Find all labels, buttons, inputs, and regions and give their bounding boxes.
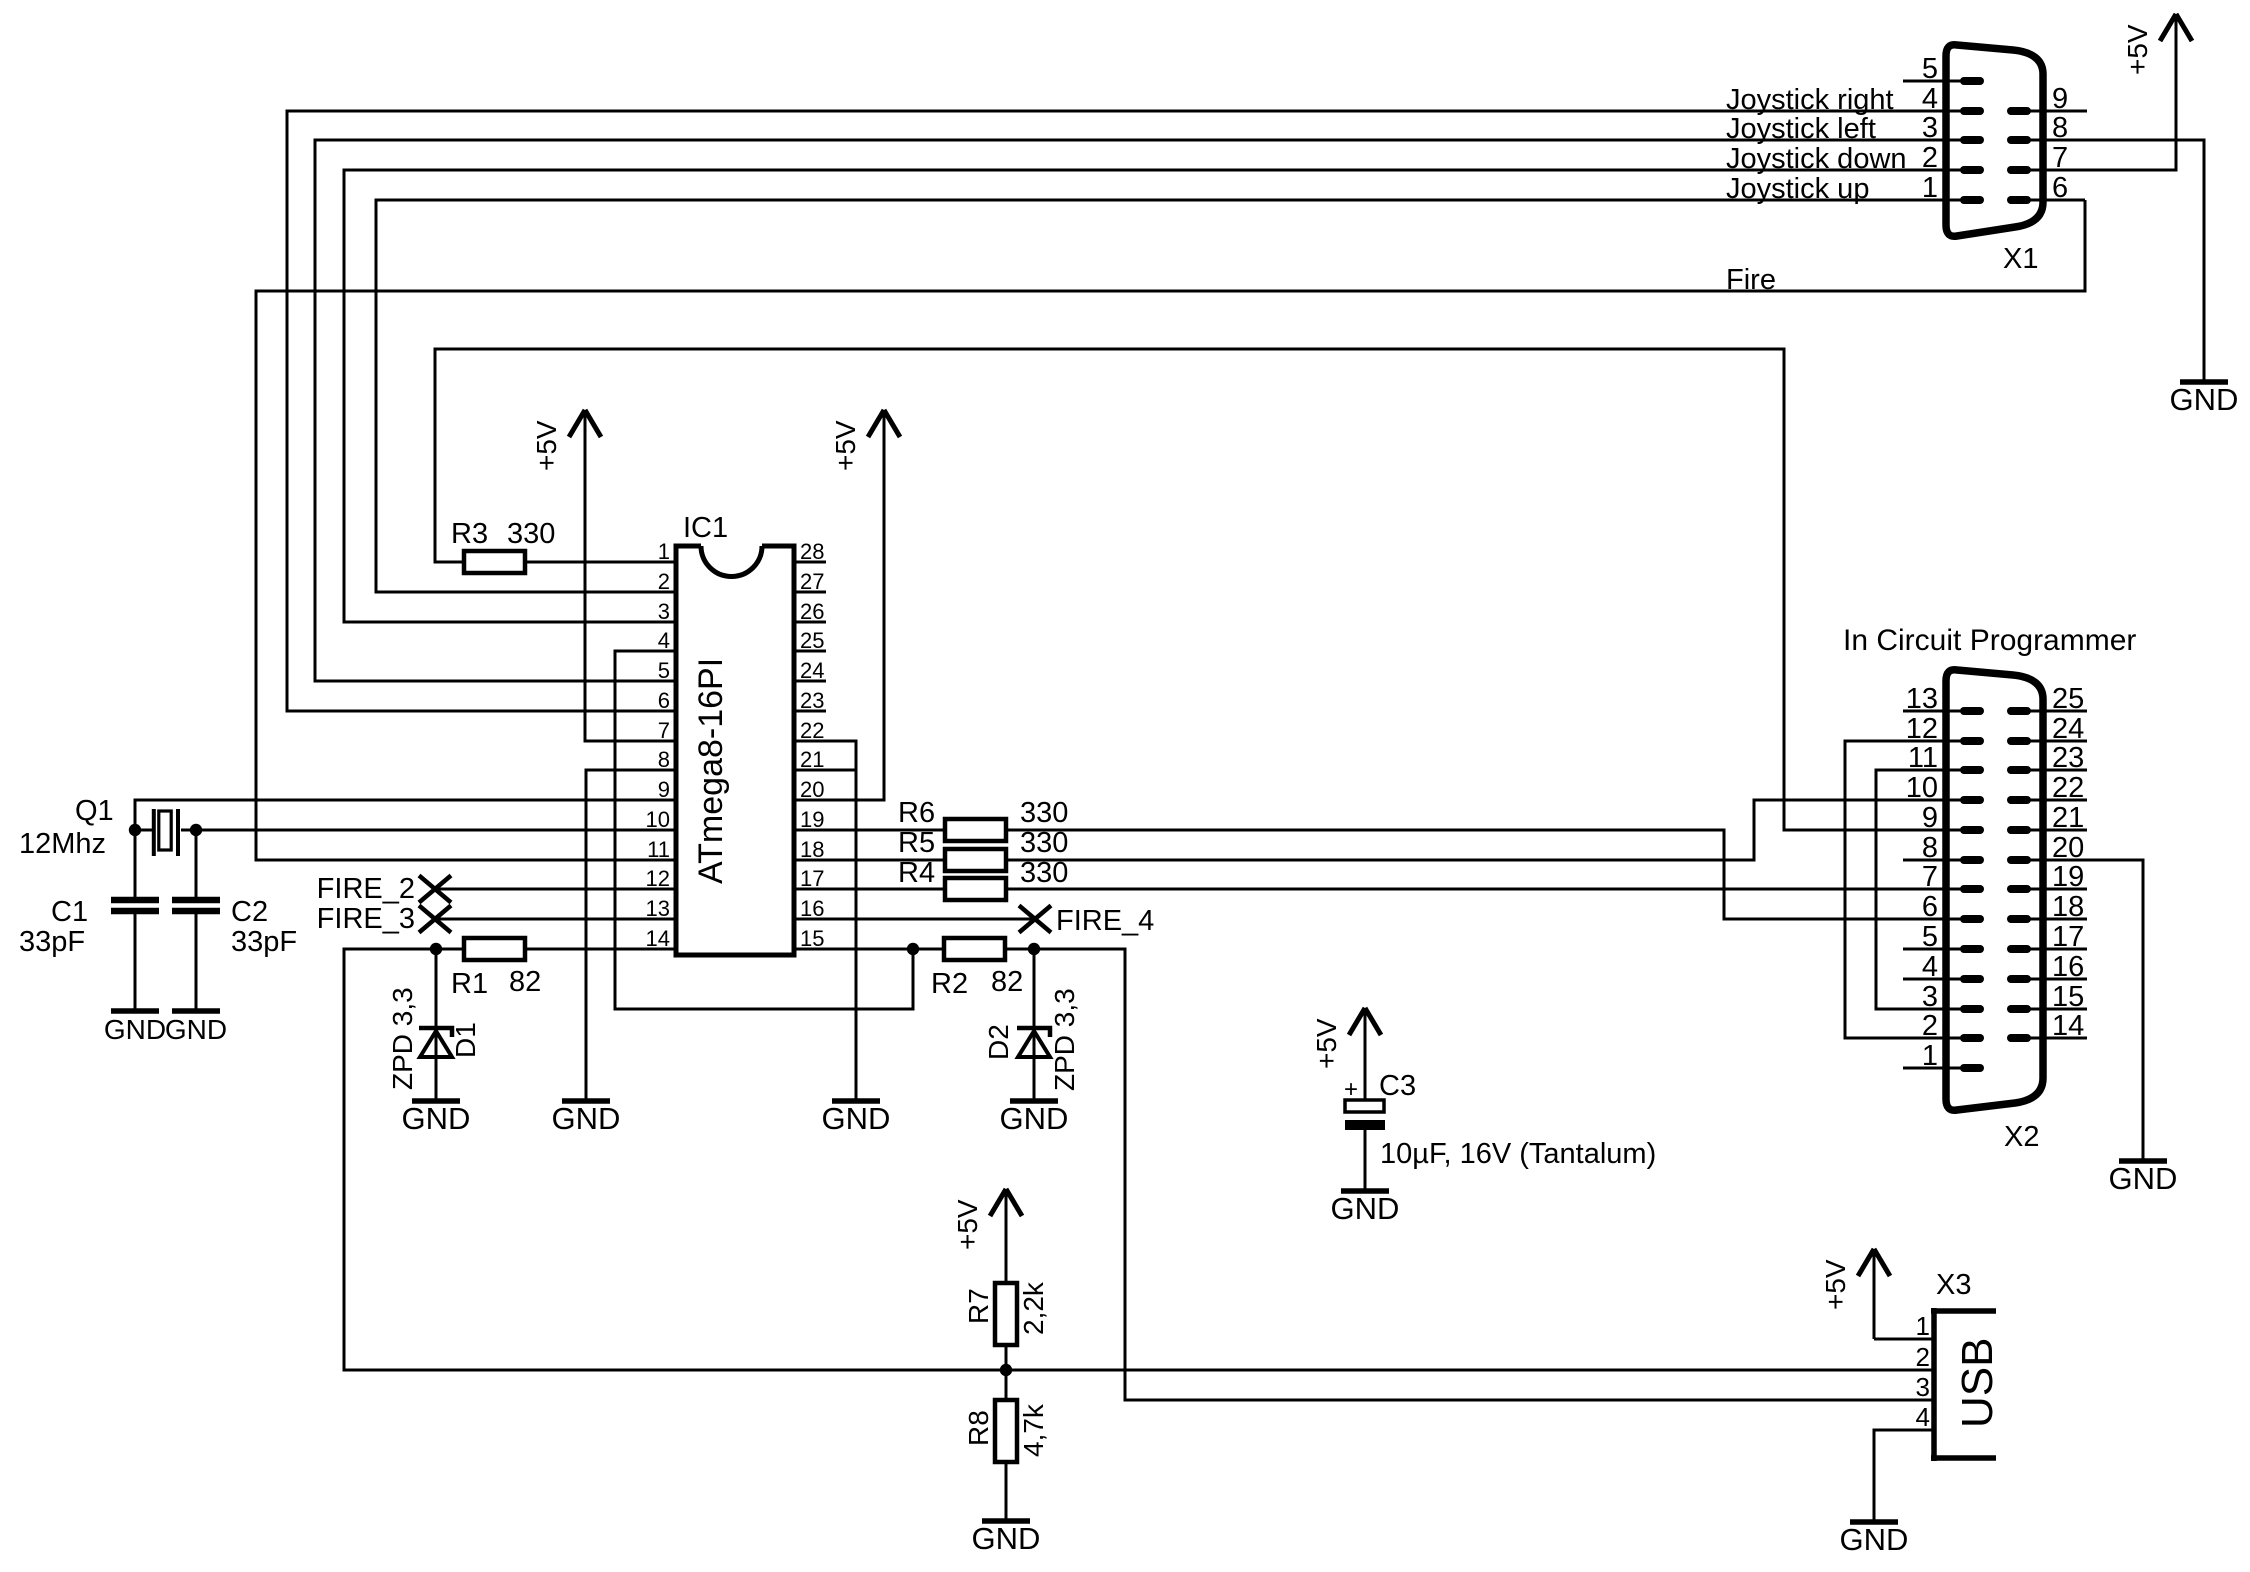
svg-text:GND: GND (2170, 382, 2239, 417)
svg-text:R8: R8 (963, 1410, 994, 1446)
wire X2 pin19 stub (2030, 888, 2087, 891)
zener diode D1 (419, 1028, 452, 1037)
resistor R8 box (995, 1400, 1017, 1462)
svg-text:+5V: +5V (531, 420, 562, 471)
wire X2 pin14 stub (2030, 1037, 2087, 1040)
wire pin20 AVCC +5V (794, 437, 884, 800)
ground at C1 (111, 1008, 159, 1014)
svg-text:FIRE_4: FIRE_4 (1056, 905, 1154, 937)
ground at IC pin8 (562, 1098, 610, 1104)
svg-text:25: 25 (800, 628, 824, 653)
connector X2 pin 3 contact (1964, 1005, 1980, 1013)
resistor R5 box (945, 849, 1006, 871)
connector X2 pin 23 contact (2011, 766, 2027, 774)
wire R8 bottom (1005, 1462, 1008, 1519)
wire pin16 FIRE_4 stub (794, 918, 1035, 921)
connector X2 pin 1 contact (1964, 1064, 1980, 1072)
no-connect X FIRE_2 (419, 876, 451, 903)
connector X1 pin 3 contact (1964, 136, 1980, 144)
wire X3 pin3 end (1930, 1399, 1934, 1402)
svg-text:C2: C2 (231, 896, 268, 928)
svg-text:2: 2 (658, 569, 670, 594)
wire C3 top (1364, 1038, 1367, 1100)
connector X2 pin 7 contact (1964, 885, 1980, 893)
connector X2 pin 12 contact (1964, 737, 1980, 745)
wire X2 pin4 stub (1903, 978, 1962, 981)
ground at IC pin22 (832, 1098, 880, 1104)
connector X1 pin 8 contact (2011, 136, 2027, 144)
svg-text:Joystick down: Joystick down (1726, 143, 1907, 175)
svg-text:9: 9 (1922, 802, 1938, 834)
svg-text:330: 330 (1020, 827, 1068, 859)
svg-text:Fire: Fire (1726, 264, 1776, 296)
svg-text:27: 27 (800, 569, 824, 594)
svg-text:R1: R1 (451, 968, 488, 1000)
wire X2 pin11 to pin3 jumper (1876, 770, 1962, 1009)
wire C1 bottom (134, 914, 137, 1009)
svg-text:22: 22 (800, 718, 824, 743)
wire IC pin28 stub (794, 561, 826, 564)
crystal Q1 (135, 829, 196, 832)
resistor R7 box (995, 1283, 1017, 1345)
wire X2 pin23 stub (2030, 769, 2087, 772)
junction D+ right (1028, 943, 1040, 955)
junction D- at R1 (430, 943, 442, 955)
svg-text:3: 3 (1916, 1372, 1930, 1402)
connector X2 pin 21 contact (2011, 826, 2027, 834)
svg-text:12: 12 (646, 866, 670, 891)
wire Joystick down net (344, 170, 1962, 622)
wire pin8 GND (586, 770, 676, 1099)
svg-text:C1: C1 (51, 896, 88, 928)
wire X2 pin16 stub (2030, 978, 2087, 981)
+5V arrow at X1 (2160, 14, 2192, 41)
svg-text:+5V: +5V (830, 420, 861, 471)
svg-text:6: 6 (658, 688, 670, 713)
svg-text:1: 1 (658, 539, 670, 564)
svg-text:28: 28 (800, 539, 824, 564)
svg-text:USB: USB (1953, 1338, 2002, 1428)
svg-text:R5: R5 (898, 827, 935, 859)
wire D1 vertical (435, 949, 438, 1101)
svg-text:R6: R6 (898, 797, 935, 829)
svg-text:+5V: +5V (2122, 24, 2153, 75)
svg-text:GND: GND (552, 1101, 621, 1136)
ground at X2 pin20 (2119, 1158, 2167, 1164)
svg-text:4: 4 (658, 628, 670, 653)
wire X2 pin5 stub (1903, 948, 1962, 951)
svg-text:1: 1 (1922, 172, 1938, 204)
wire X2 pin13 stub (1903, 710, 1962, 713)
connector X2 pin 18 contact (2011, 915, 2027, 923)
wire IC pin24 stub (794, 680, 826, 683)
wire X3 pin1 +5V (1874, 1338, 1934, 1341)
+5V arrow at X3 (1858, 1249, 1890, 1276)
svg-text:4: 4 (1916, 1402, 1930, 1432)
wire X3 pin4 GND (1874, 1430, 1934, 1520)
svg-text:2: 2 (1922, 142, 1938, 174)
svg-text:X3: X3 (1936, 1269, 1971, 1301)
wire X2 pin12 to pin2 jumper (1845, 741, 1962, 1038)
connector X2 pin 25 contact (2011, 707, 2027, 715)
svg-text:GND: GND (822, 1101, 891, 1136)
svg-text:18: 18 (800, 837, 824, 862)
svg-text:Joystick left: Joystick left (1726, 113, 1876, 145)
connector X2 pin 17 contact (2011, 945, 2027, 953)
wire X2 pin15 stub (2030, 1008, 2087, 1011)
connector X1 pin 4 contact (1964, 107, 1980, 115)
svg-text:X1: X1 (2003, 243, 2038, 275)
wire X2 pin17 stub (2030, 948, 2087, 951)
svg-text:GND: GND (972, 1521, 1041, 1556)
connector X2 pin 16 contact (2011, 975, 2027, 983)
svg-text:330: 330 (1020, 797, 1068, 829)
svg-text:GND: GND (1840, 1522, 1909, 1557)
+5V arrow at C3 (1349, 1008, 1381, 1035)
no-connect X FIRE_4 (1019, 906, 1051, 933)
ground at D2 (1010, 1098, 1058, 1104)
wire pin10 XTAL2 (196, 829, 676, 832)
wire X2 pin24 stub (2030, 740, 2087, 743)
connector X2 pin 14 contact (2011, 1034, 2027, 1042)
wire X2 pin21 stub (2030, 829, 2087, 832)
svg-text:R4: R4 (898, 857, 935, 889)
wire pin7 +5V (585, 437, 676, 741)
connector X2 pin 11 contact (1964, 766, 1980, 774)
svg-text:IC1: IC1 (683, 512, 728, 544)
ground at D1 (412, 1098, 460, 1104)
wire R7 to junction (1005, 1345, 1008, 1370)
svg-text:R2: R2 (931, 968, 968, 1000)
connector X1 pin 6 contact (2011, 196, 2027, 204)
capacitor C2 (172, 900, 220, 911)
svg-text:9: 9 (658, 777, 670, 802)
connector X1 pin 1 contact (1964, 196, 1980, 204)
wire pin13 FIRE_3 stub (435, 918, 676, 921)
svg-text:16: 16 (800, 896, 824, 921)
resistor R6 box (945, 819, 1006, 841)
wire X2 pin1 stub (1903, 1067, 1962, 1070)
wire pin17 R4 net to X2 pin7 (794, 888, 1962, 891)
connector X2 pin 20 contact (2011, 856, 2027, 864)
wire reset net R3 left up over to X2 pin9 (435, 349, 1962, 830)
svg-text:GND: GND (104, 1014, 166, 1045)
wire IC pin27 stub (794, 591, 826, 594)
svg-text:6: 6 (1922, 891, 1938, 923)
wire pin21 AREF (794, 769, 856, 772)
ground at R8 (982, 1518, 1030, 1524)
svg-text:14: 14 (646, 926, 670, 951)
ground at C2 (172, 1008, 220, 1014)
svg-text:In Circuit Programmer: In Circuit Programmer (1843, 624, 2136, 657)
wire Joystick right net (287, 111, 1962, 711)
IC body ATmega8 (676, 546, 794, 955)
wire junction to R8 (1005, 1370, 1008, 1400)
wire D2 vertical (1033, 949, 1036, 1099)
connector X2 pin 24 contact (2011, 737, 2027, 745)
svg-text:ZPD 3,3: ZPD 3,3 (387, 987, 418, 1090)
svg-text:GND: GND (1331, 1191, 1400, 1226)
wire C2 top (195, 830, 198, 897)
wire IC pin26 stub (794, 621, 826, 624)
wire pin12 FIRE_2 stub (435, 888, 676, 891)
svg-text:ATmega8-16PI: ATmega8-16PI (692, 658, 730, 884)
wire pin9 XTAL1 (135, 800, 676, 830)
+5V arrow at IC pin20 (868, 410, 900, 437)
svg-text:2,2k: 2,2k (1018, 1281, 1049, 1335)
svg-text:10: 10 (646, 807, 670, 832)
resistor R3 box (464, 551, 525, 573)
svg-text:2: 2 (1916, 1342, 1930, 1372)
svg-text:R3: R3 (451, 518, 488, 550)
svg-text:7: 7 (658, 718, 670, 743)
wire pin22 GND (794, 741, 856, 1099)
ground at X3 pin4 (1850, 1519, 1898, 1525)
connector X1 pin 9 contact (2011, 107, 2027, 115)
svg-text:Joystick up: Joystick up (1726, 173, 1869, 205)
wire X2 pin20 to GND (2030, 860, 2143, 1159)
connector X2 pin 2 contact (1964, 1034, 1980, 1042)
svg-text:+5V: +5V (952, 1199, 983, 1250)
svg-text:24: 24 (800, 658, 824, 683)
wire IC pin25 stub (794, 650, 826, 653)
connector X2 pin 4 contact (1964, 975, 1980, 983)
wire X2 pin25 stub (2030, 710, 2087, 713)
connector X1 pin 7 contact (2011, 166, 2027, 174)
wire X1 pin7 to +5V (2030, 45, 2176, 170)
wire X1 pin8 to GND (2030, 140, 2204, 380)
svg-text:12Mhz: 12Mhz (19, 828, 106, 860)
wire X2 pin22 stub (2030, 799, 2087, 802)
connector X2 pin 13 contact (1964, 707, 1980, 715)
svg-text:330: 330 (507, 518, 555, 550)
+5V arrow at R7 (990, 1189, 1022, 1216)
connector X2 pin 5 contact (1964, 945, 1980, 953)
svg-text:D2: D2 (983, 1024, 1014, 1060)
junction crystal right (190, 824, 202, 836)
svg-text:Q1: Q1 (75, 795, 114, 827)
svg-text:4,7k: 4,7k (1018, 1403, 1049, 1457)
connector X2 pin 19 contact (2011, 885, 2027, 893)
wire X3 +5V vertical (1873, 1279, 1876, 1339)
svg-text:Joystick right: Joystick right (1726, 84, 1894, 116)
wire R7 top (1005, 1219, 1008, 1283)
svg-text:+: + (1344, 1076, 1358, 1103)
junction D- at R7 R8 (1000, 1364, 1012, 1376)
svg-text:19: 19 (800, 807, 824, 832)
resistor R2 box (944, 938, 1005, 960)
svg-text:11: 11 (647, 837, 670, 862)
wire C1 top (134, 830, 137, 897)
svg-text:GND: GND (2109, 1161, 2178, 1196)
wire C2 bottom (195, 914, 198, 1009)
connector X3 USB symbol (1931, 1308, 1996, 1461)
capacitor C3 polarized (1345, 1100, 1384, 1112)
wire X1 pin5 stub (1903, 80, 1962, 83)
connector X2 pin 8 contact (1964, 856, 1980, 864)
svg-text:21: 21 (800, 747, 824, 772)
no-connect X FIRE_3 (419, 906, 451, 933)
svg-text:ZPD 3,3: ZPD 3,3 (1049, 988, 1080, 1091)
wire pin18 R5 net to X2 pin10 (794, 800, 1962, 860)
ground at X1 pin8 (2180, 379, 2228, 385)
wire reset net pin1 to R3 (525, 561, 676, 564)
svg-text:330: 330 (1020, 857, 1068, 889)
connector X2 pin 10 contact (1964, 796, 1980, 804)
+5V arrow at IC pin7 (569, 410, 601, 437)
svg-text:15: 15 (800, 926, 824, 951)
svg-text:17: 17 (800, 866, 824, 891)
svg-text:R7: R7 (963, 1288, 994, 1324)
svg-text:FIRE_2: FIRE_2 (317, 873, 415, 905)
connector X2 shell (1946, 670, 2043, 1111)
svg-text:+5V: +5V (1311, 1018, 1342, 1069)
connector X2 pin 9 contact (1964, 826, 1980, 834)
svg-text:82: 82 (509, 966, 541, 998)
svg-text:7: 7 (1922, 861, 1938, 893)
svg-text:26: 26 (800, 599, 824, 624)
svg-text:20: 20 (800, 777, 824, 802)
ground at C3 (1341, 1188, 1389, 1194)
connector X1 pin 2 contact (1964, 166, 1980, 174)
svg-text:10: 10 (1906, 772, 1938, 804)
junction crystal left (129, 824, 141, 836)
svg-text:C3: C3 (1379, 1070, 1416, 1102)
connector X2 pin 6 contact (1964, 915, 1980, 923)
svg-text:5: 5 (1922, 53, 1938, 85)
wire Joystick left net (315, 140, 1962, 681)
wire X2 pin18 stub (2030, 918, 2087, 921)
svg-text:+5V: +5V (1820, 1259, 1851, 1310)
connector X1 shell (1946, 45, 2043, 237)
zener diode D2 (1017, 1028, 1050, 1037)
svg-text:3: 3 (658, 599, 670, 624)
wire Fire net (256, 200, 2085, 860)
svg-text:23: 23 (800, 688, 824, 713)
svg-text:33pF: 33pF (19, 926, 85, 958)
svg-text:13: 13 (646, 896, 670, 921)
svg-text:5: 5 (658, 658, 670, 683)
resistor R4 box (945, 878, 1006, 900)
wire pin19 R6 net to X2 pin6 (794, 830, 1962, 919)
wire pin15 D+ net (794, 949, 1933, 1400)
junction D+ left (907, 943, 919, 955)
svg-text:10µF, 16V (Tantalum): 10µF, 16V (Tantalum) (1380, 1138, 1656, 1170)
svg-text:X2: X2 (2004, 1121, 2039, 1153)
svg-text:33pF: 33pF (231, 926, 297, 958)
svg-text:1: 1 (1916, 1311, 1930, 1341)
wire X2 pin8 stub (1903, 859, 1962, 862)
svg-text:8: 8 (658, 747, 670, 772)
svg-text:4: 4 (1922, 83, 1938, 115)
wire X3 pin2 end (1930, 1369, 1934, 1372)
resistor R1 box (464, 938, 525, 960)
connector X2 pin 22 contact (2011, 796, 2027, 804)
svg-text:GND: GND (402, 1101, 471, 1136)
capacitor C1 (111, 900, 159, 911)
wire Joystick up net (376, 200, 1962, 592)
wire IC pin23 stub (794, 710, 826, 713)
svg-text:FIRE_3: FIRE_3 (317, 903, 415, 935)
svg-text:3: 3 (1922, 112, 1938, 144)
svg-text:82: 82 (991, 966, 1023, 998)
connector X1 pin 5 contact (1964, 77, 1980, 85)
wire C3 bottom (1364, 1130, 1367, 1189)
wire pin14 D- net (344, 949, 1933, 1370)
wire pin4 D+ route (615, 651, 913, 1009)
wire X1 pin9 stub (2030, 110, 2087, 113)
svg-text:GND: GND (165, 1014, 227, 1045)
connector X2 pin 15 contact (2011, 1005, 2027, 1013)
svg-text:D1: D1 (450, 1022, 481, 1058)
svg-text:GND: GND (1000, 1101, 1069, 1136)
wire X1 pin6 to Fire (2030, 199, 2085, 202)
